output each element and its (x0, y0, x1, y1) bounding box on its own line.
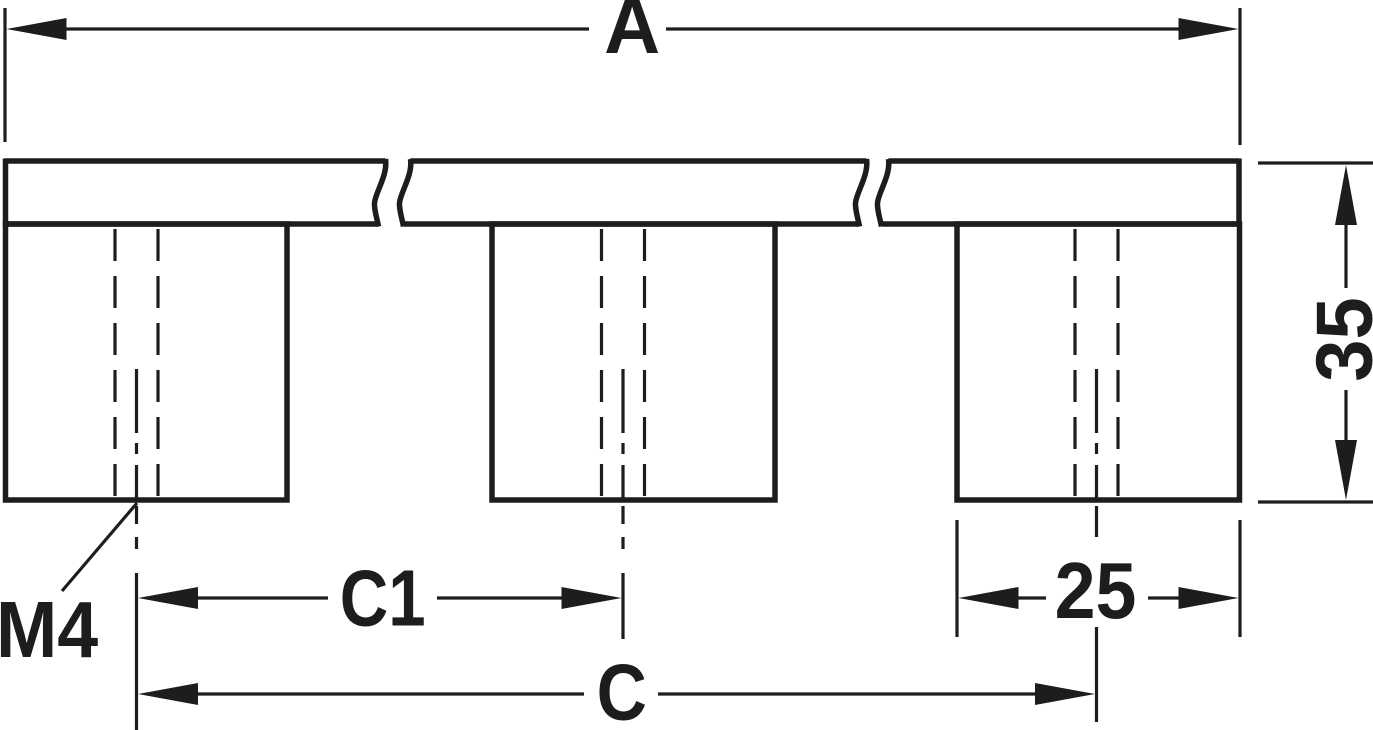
svg-text:C1: C1 (340, 553, 426, 643)
right post: thread hole dashed line left (1073, 229, 1076, 500)
handle bar: top edge segment 1 (5, 159, 1240, 501)
dimension 35: up arrowhead (1335, 165, 1357, 225)
middle post outline (492, 224, 775, 500)
dimension C: dimension line left segment (190, 692, 584, 695)
dimension C: dimension line right segment (658, 692, 1045, 695)
dimension 35: dimension line lower segment (1344, 390, 1347, 442)
svg-text:35: 35 (1299, 297, 1373, 382)
dimension C1: dimension line right segment (437, 596, 570, 599)
middle post: thread hole dashed line left (600, 229, 603, 500)
dimension 25: dimension line left segment (1012, 596, 1046, 599)
handle bar: bottom edge segment 2 (404, 221, 859, 227)
svg-text:C: C (597, 647, 647, 730)
handle bar: top edge segment 2 (411, 158, 867, 164)
extension line below right post (1095, 627, 1098, 722)
right post: center line below post (1095, 506, 1098, 537)
dimension 35: dimension line upper segment (1344, 222, 1347, 288)
svg-text:A: A (604, 0, 660, 70)
left post outline (6, 224, 288, 500)
label M4 (0, 585, 98, 675)
dimension 25: left arrowhead (959, 587, 1019, 609)
handle bar: right end cap (1236, 159, 1242, 227)
dimension A: dimension line left segment (55, 27, 589, 30)
label 35 (rotated) (1299, 297, 1373, 382)
M4 leader line (62, 503, 137, 591)
left post: thread hole dashed line left (113, 229, 116, 500)
left post: center line inside (135, 369, 138, 500)
left post: center line below post (135, 506, 138, 549)
label A (604, 0, 660, 70)
handle bar: left end cap (3, 159, 9, 227)
svg-text:25: 25 (1055, 546, 1137, 636)
dimension 35: bottom extension line (1258, 500, 1373, 503)
dimension C1: dimension line left segment (190, 596, 328, 599)
dimension 35: top extension line (1258, 161, 1373, 164)
dimension A: right extension line (1238, 8, 1241, 145)
middle post: center line inside (621, 369, 624, 500)
dimension A: left arrowhead (7, 18, 67, 40)
middle post: thread hole dashed line right (643, 229, 646, 500)
right post outline (957, 224, 1240, 500)
dimension 35: down arrowhead (1335, 440, 1357, 500)
handle bar: bottom edge segment 3 (882, 221, 1239, 227)
dimension A: right arrowhead (1179, 18, 1239, 40)
break symbol 2: right wavy edge (877, 159, 888, 227)
break symbol 2: left wavy edge (855, 159, 866, 227)
extension line below middle post (621, 573, 624, 639)
label 25 (1055, 546, 1137, 636)
right post: center line inside (1095, 369, 1098, 500)
label C (597, 647, 647, 730)
dimension 25: left extension line (955, 520, 958, 637)
dimension 25: dimension line right segment (1148, 596, 1185, 599)
dimension C: right arrowhead (1035, 683, 1095, 705)
dimension C: left arrowhead (138, 683, 198, 705)
handle bar: bottom edge segment 1 (5, 221, 379, 227)
left post: thread hole dashed line right (156, 229, 159, 500)
dimension C1: right arrowhead (562, 587, 622, 609)
dimension A: dimension line right segment (666, 27, 1190, 30)
middle post: center line below post (621, 506, 624, 549)
extension line below left post (135, 573, 138, 730)
dimension 25: right arrowhead (1179, 587, 1239, 609)
dimension A: left extension line (3, 8, 6, 142)
right post: thread hole dashed line right (1116, 229, 1119, 500)
label C1 (340, 553, 426, 643)
dimension C1: left arrowhead (138, 587, 198, 609)
handle bar: top edge segment 3 (889, 158, 1240, 164)
break symbol 1: right wavy edge (399, 159, 410, 227)
break symbol 1: left wavy edge (374, 159, 385, 227)
dimension 25: right extension line (1238, 520, 1241, 637)
svg-text:M4: M4 (0, 585, 98, 675)
